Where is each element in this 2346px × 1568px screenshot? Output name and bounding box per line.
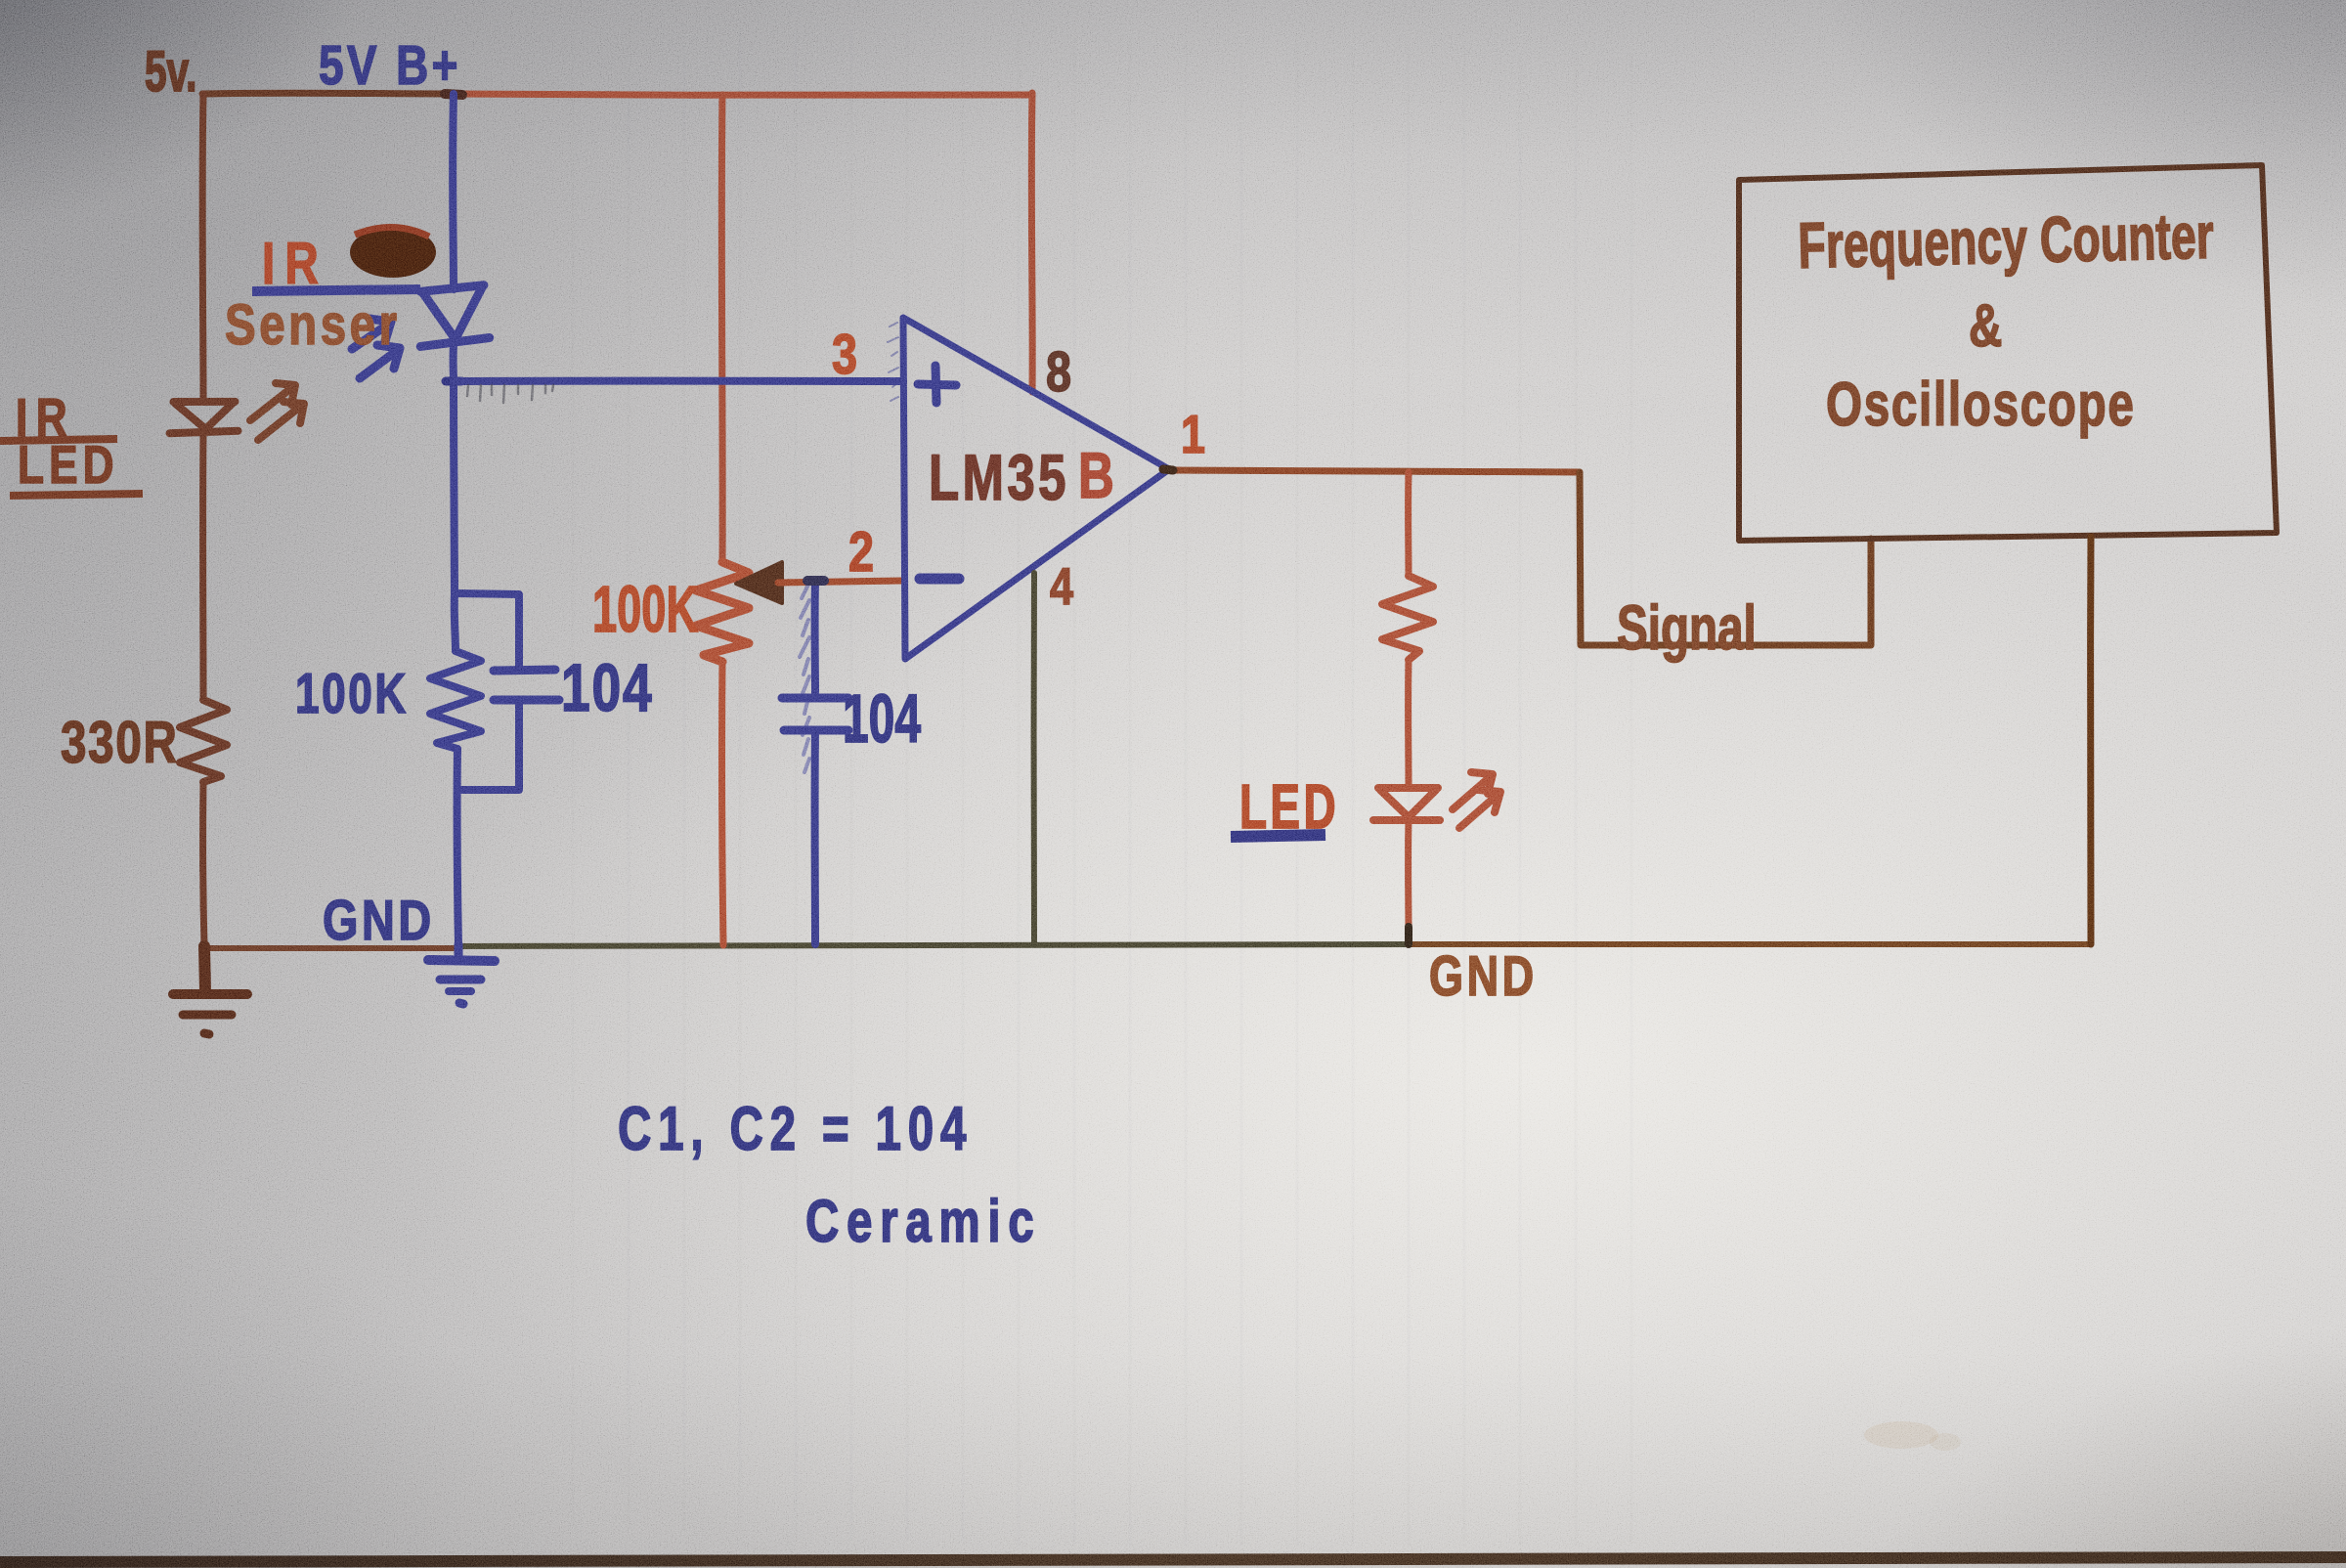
diode IR sensor (photodiode) <box>416 285 490 347</box>
wire 5V rail red segment <box>454 94 1032 95</box>
wire red branch vertical to resistor R3 <box>1405 472 1412 576</box>
label Ceramic <box>805 1187 1041 1254</box>
capacitor C2 plates <box>782 698 848 730</box>
resistor 100K (blue R2) <box>430 651 481 749</box>
wire brown vertical (IR LED to 330R) <box>199 432 206 700</box>
label 100K (blue resistor) <box>295 663 409 725</box>
label Oscilloscope <box>1826 370 2136 439</box>
label LM358 <box>929 443 1069 514</box>
underline LED (blue) <box>1231 835 1325 837</box>
IR LED emission arrows <box>250 383 304 440</box>
potentiometer wiper arrow <box>736 562 782 603</box>
wire left brown vertical (5v to IR LED) <box>199 94 207 401</box>
label ampersand <box>1969 291 2002 359</box>
label pin 3 <box>832 325 857 386</box>
label Signal <box>1617 592 1757 663</box>
node pin1 apex dot <box>1163 469 1173 470</box>
label 330R <box>61 710 179 776</box>
label C1,C2 = 104 <box>618 1095 973 1163</box>
wire signal drop and run <box>1580 472 1871 645</box>
label 5v (left supply) <box>145 40 196 104</box>
wire red vertical (pot to GND) <box>722 662 723 945</box>
label IR (sensor, red) <box>262 231 328 297</box>
ground symbol brown (left) <box>173 946 247 1034</box>
wire red (LED to GND) <box>1405 820 1412 929</box>
label 5V B+ <box>319 33 461 96</box>
label LED (left) <box>18 435 119 496</box>
capacitor C1 branch loop <box>455 593 519 790</box>
label GND (blue) <box>323 891 435 952</box>
resistor R3 (LED series) <box>1382 576 1433 660</box>
node wiper/C2 junction <box>807 576 824 586</box>
node A junction sensor/pin3 <box>446 377 461 386</box>
label 100K (pot) <box>592 573 698 646</box>
wire olive pin 4 to GND <box>1031 573 1037 944</box>
capacitor C2 ink bleed hatch <box>800 585 809 772</box>
node LED-GND dark junction <box>1405 927 1412 944</box>
wire box right side down to GND <box>2087 537 2094 944</box>
label Frequency Counter <box>1798 200 2215 283</box>
wire GND rail olive middle <box>459 944 1410 946</box>
ink fuzz left of op-amp edge <box>888 323 898 401</box>
box frequency counter / oscilloscope <box>1739 165 2277 541</box>
wire box signal stub (into box bottom) <box>1871 539 1872 645</box>
wire output pin 1 <box>1169 470 1580 472</box>
op-amp U1 LM358 triangle <box>903 318 1169 659</box>
capacitor C2 vertical top lead <box>811 581 819 696</box>
wire brown vertical (330R to GND) <box>203 782 204 946</box>
label 104 (C1) <box>561 651 654 726</box>
faint paper ruling lines <box>573 24 1631 1545</box>
wire red vertical to op-amp pin 8 <box>1028 93 1036 392</box>
label pin 2 <box>848 522 874 584</box>
ink fuzz under pin3 wire <box>467 385 553 403</box>
potentiometer 100K zigzag <box>696 562 749 662</box>
underline IR <box>0 439 117 441</box>
ink blob next to IR <box>350 227 436 278</box>
op-amp minus input symbol <box>920 574 959 585</box>
wire blue pin 3 input <box>454 377 903 385</box>
wire GND rail brown left <box>203 945 459 951</box>
wire red vertical from rail to potentiometer <box>718 95 726 562</box>
diode LED indicator <box>1373 788 1440 820</box>
diode IR LED (D1) <box>168 400 238 433</box>
label pin 8 <box>1046 342 1071 404</box>
ground symbol blue <box>428 944 495 1004</box>
wire GND rail brown right <box>1410 941 2091 947</box>
wire blue vertical to 100K resistor <box>455 593 456 651</box>
capacitor C1 plates <box>494 670 559 700</box>
label pin 1 <box>1181 405 1205 464</box>
capacitor C2 bottom lead <box>811 730 819 944</box>
label pin 4 <box>1050 558 1073 616</box>
wire blue vertical (sensor to node A) <box>454 344 455 593</box>
op-amp plus input symbol <box>918 366 956 403</box>
node B+ junction <box>445 94 462 95</box>
wire blue vertical from B+ to IR sensor <box>449 94 457 289</box>
IR sensor receiving arrows <box>352 319 400 378</box>
wire 5V rail brown segment <box>202 90 454 98</box>
underline of IR sensor label (blue) <box>252 289 420 291</box>
label GND (brown right) <box>1429 944 1538 1008</box>
label Senser <box>225 293 401 357</box>
wire wiper to pin 2 <box>778 581 903 583</box>
label LED (right) <box>1239 772 1339 842</box>
resistor 330R <box>180 700 227 782</box>
label 104 (C2) <box>843 680 921 757</box>
LED emission arrows <box>1453 772 1500 828</box>
wire red (R3 to LED) <box>1405 660 1412 788</box>
label IR (left) <box>16 388 75 449</box>
wire blue vertical (100K to GND) <box>457 749 458 944</box>
table edge at bottom <box>0 1551 2346 1568</box>
underline LED <box>10 494 143 496</box>
